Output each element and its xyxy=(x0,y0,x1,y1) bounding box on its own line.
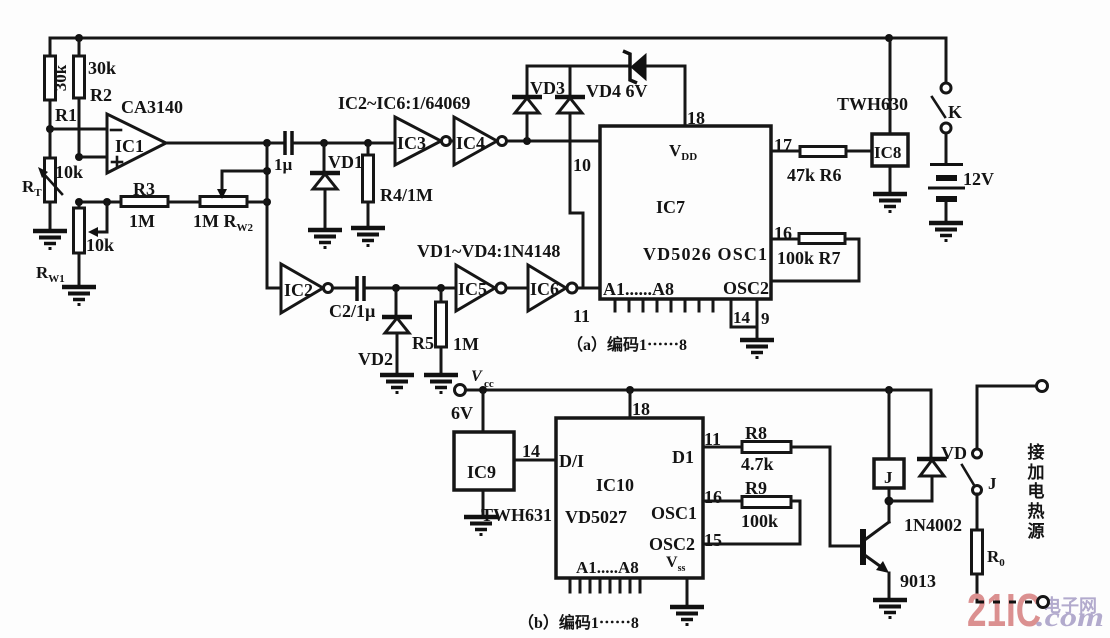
svg-text:R1: R1 xyxy=(55,105,77,125)
ground under transistor xyxy=(873,600,907,618)
svg-text:IC2: IC2 xyxy=(284,280,313,300)
svg-text:10k: 10k xyxy=(55,162,83,182)
thermistor RT xyxy=(22,129,83,230)
svg-text:100k R7: 100k R7 xyxy=(777,248,841,268)
svg-text:D1: D1 xyxy=(672,447,694,467)
wire zener row to pin18 xyxy=(527,66,685,126)
svg-text:9: 9 xyxy=(761,309,770,328)
svg-text:K: K xyxy=(948,102,962,122)
ground under R4 xyxy=(351,228,385,246)
potentiometer RW2 1M xyxy=(193,171,267,234)
svg-text:C2/1µ: C2/1µ xyxy=(329,301,376,321)
node non-inverting junction xyxy=(75,153,83,161)
svg-text:IC6: IC6 xyxy=(530,279,559,299)
svg-text:（a）编码1⋯⋯8: （a）编码1⋯⋯8 xyxy=(567,335,687,354)
diode VD3 xyxy=(512,66,565,141)
op-amp U IC1 CA3140 xyxy=(107,97,183,173)
svg-text:OSC1: OSC1 xyxy=(651,503,697,523)
diode VD 1N4002 xyxy=(904,390,967,535)
svg-text:30k: 30k xyxy=(88,58,116,78)
svg-text:VD5026 OSC1: VD5026 OSC1 xyxy=(643,244,767,264)
node junction IC8 supply xyxy=(885,34,893,42)
resistor R9 100k xyxy=(703,478,800,544)
svg-text:IC8: IC8 xyxy=(874,143,901,162)
wire pin15 OSC2 xyxy=(703,543,800,546)
transistor Q 9013 xyxy=(860,501,936,599)
svg-text:IC9: IC9 xyxy=(467,462,496,482)
svg-text:16: 16 xyxy=(704,487,722,507)
svg-text:（b）编码1⋯⋯8: （b）编码1⋯⋯8 xyxy=(518,613,639,632)
IC encoder IC7 VD5026 xyxy=(573,126,771,326)
resistor R8 4.7k xyxy=(703,423,860,546)
svg-text:R8: R8 xyxy=(745,423,767,443)
node output junction xyxy=(263,139,271,147)
svg-text:VD: VD xyxy=(941,443,967,463)
wire to op-amp inverting input xyxy=(50,128,107,131)
battery 12V xyxy=(928,133,994,222)
svg-text:VD4 6V: VD4 6V xyxy=(586,81,648,101)
svg-text:IC3: IC3 xyxy=(397,133,426,153)
ground under RT xyxy=(33,231,67,249)
inverter IC3 xyxy=(395,117,451,165)
svg-text:D/I: D/I xyxy=(559,451,584,471)
potentiometer RW1 10k xyxy=(36,202,114,286)
svg-text:R2: R2 xyxy=(90,85,112,105)
ground under battery xyxy=(929,223,963,241)
diode VD2 xyxy=(358,288,412,374)
diode VD4 xyxy=(555,66,648,288)
wire pin18 IC10 xyxy=(629,390,632,418)
wire to op-amp non-inverting input xyxy=(79,156,107,159)
resistor R0 heater xyxy=(972,494,1006,602)
resistor R1 xyxy=(45,38,78,129)
svg-text:14: 14 xyxy=(733,308,751,327)
svg-text:9013: 9013 xyxy=(900,571,936,591)
resistor R4 1M xyxy=(363,139,434,227)
svg-text:R9: R9 xyxy=(745,478,767,498)
svg-text:VD1~VD4:1N4148: VD1~VD4:1N4148 xyxy=(417,241,560,261)
resistor R6 47k xyxy=(771,135,872,185)
svg-text:16: 16 xyxy=(774,223,792,243)
svg-text:A1......A8: A1......A8 xyxy=(603,279,674,299)
inverter IC5 xyxy=(456,265,506,311)
resistor R2 xyxy=(74,38,117,157)
switch J xyxy=(962,449,997,495)
svg-text:J: J xyxy=(988,474,997,493)
svg-text:10k: 10k xyxy=(86,235,114,255)
wire IC6 output to IC7 A-pin xyxy=(577,287,600,290)
svg-text:30k: 30k xyxy=(51,64,70,91)
ground under VD2 xyxy=(380,375,414,393)
svg-text:VD2: VD2 xyxy=(358,349,393,369)
svg-text:接: 接 xyxy=(1028,442,1045,462)
svg-text:R4/1M: R4/1M xyxy=(380,185,433,205)
svg-text:OSC2: OSC2 xyxy=(723,278,769,298)
svg-text:VD1: VD1 xyxy=(328,152,363,172)
svg-text:1N4002: 1N4002 xyxy=(904,515,962,535)
IC7 bottom pins A1-A8 xyxy=(615,299,713,311)
inverter IC6 xyxy=(506,265,577,311)
terminal bottom right xyxy=(1038,597,1049,608)
svg-text:加: 加 xyxy=(1027,463,1045,482)
ground under IC8 xyxy=(873,194,907,212)
svg-text:热: 热 xyxy=(1028,501,1045,521)
svg-text:15: 15 xyxy=(704,530,722,550)
inverter IC4 xyxy=(450,117,507,165)
ground under IC9 xyxy=(464,517,498,535)
svg-text:V: V xyxy=(471,368,483,385)
svg-text:IC1: IC1 xyxy=(115,136,144,156)
wire top supply rail xyxy=(50,38,946,83)
svg-text:TWH630: TWH630 xyxy=(837,94,908,114)
wire pin14 D/I xyxy=(514,459,556,462)
capacitor C1 1u xyxy=(267,131,395,174)
terminal Vcc xyxy=(455,385,466,396)
wire lower supply rail xyxy=(466,389,931,392)
wire feedback column xyxy=(266,143,269,288)
svg-text:14: 14 xyxy=(522,441,540,461)
wire Vss pin xyxy=(686,578,689,606)
diode VD1 xyxy=(310,139,363,229)
resistor R5 1M xyxy=(412,288,479,374)
svg-text:100k: 100k xyxy=(741,511,778,531)
relay coil J xyxy=(874,390,932,506)
svg-text:21IC: 21IC xyxy=(967,584,1041,636)
svg-text:1M: 1M xyxy=(453,334,479,354)
node VD2 junction xyxy=(392,284,400,292)
ground under Vss xyxy=(670,607,704,625)
wire IC4 output to IC7 xyxy=(507,140,600,143)
ground under RW1 xyxy=(62,287,96,305)
IC9 TWH631 xyxy=(454,390,552,525)
svg-text:源: 源 xyxy=(1028,521,1045,541)
svg-text:电: 电 xyxy=(1028,481,1045,501)
IC encoder IC10 VD5027 xyxy=(556,418,703,578)
wire summing row xyxy=(79,201,121,204)
node inverting input junction xyxy=(46,125,54,133)
svg-text:CA3140: CA3140 xyxy=(121,97,183,117)
IC10 bottom pins xyxy=(570,578,640,592)
capacitor C2 xyxy=(329,276,456,321)
svg-text:11: 11 xyxy=(573,306,590,326)
ground under pin9 xyxy=(740,340,774,358)
svg-text:R3: R3 xyxy=(133,179,155,199)
terminal top right xyxy=(1037,381,1048,392)
label heater chinese xyxy=(1027,442,1045,541)
svg-text:1µ: 1µ xyxy=(274,155,293,174)
svg-text:10: 10 xyxy=(573,155,591,175)
svg-text:IC2~IC6:1/64069: IC2~IC6:1/64069 xyxy=(338,93,470,113)
svg-text:R5: R5 xyxy=(412,333,434,353)
ground under R5 xyxy=(424,375,458,393)
svg-text:OSC2: OSC2 xyxy=(649,534,695,554)
switch K xyxy=(932,83,962,133)
svg-text:IC7: IC7 xyxy=(656,197,685,217)
wire to bottom terminal xyxy=(977,601,1037,604)
ground under VD1 xyxy=(308,230,342,248)
svg-text:6V: 6V xyxy=(451,403,473,423)
svg-text:A1.....A8: A1.....A8 xyxy=(576,558,639,577)
watermark xyxy=(967,584,1104,636)
resistor R7 100k xyxy=(771,223,859,281)
svg-text:IC4: IC4 xyxy=(456,133,485,153)
resistor R3 1M xyxy=(121,179,200,231)
node R5 junction xyxy=(437,284,445,292)
svg-text:IC10: IC10 xyxy=(596,475,634,495)
svg-text:47k R6: 47k R6 xyxy=(787,165,842,185)
wire to switch J xyxy=(977,386,1036,449)
svg-text:17: 17 xyxy=(774,135,792,155)
svg-text:18: 18 xyxy=(632,399,650,419)
pin 14 / 9 loop xyxy=(731,299,770,339)
svg-text:11: 11 xyxy=(704,429,721,449)
IC8 TWH630 xyxy=(837,38,908,193)
wire op-amp output xyxy=(166,142,284,145)
node junction R2 top xyxy=(75,34,83,42)
svg-text:1M: 1M xyxy=(129,211,155,231)
svg-text:IC5: IC5 xyxy=(458,279,487,299)
svg-text:4.7k: 4.7k xyxy=(741,454,774,474)
svg-text:J: J xyxy=(884,468,893,487)
inverter IC2 xyxy=(267,264,333,313)
zener diode 6V xyxy=(623,51,646,83)
svg-text:12V: 12V xyxy=(963,169,994,189)
svg-text:VD5027: VD5027 xyxy=(565,507,627,527)
